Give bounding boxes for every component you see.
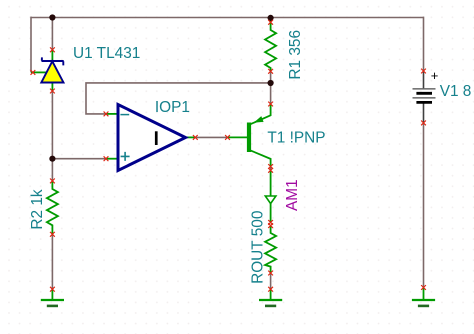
svg-text:R1 356: R1 356	[287, 30, 304, 80]
svg-text:V1 8: V1 8	[440, 83, 472, 100]
svg-text:+: +	[431, 68, 439, 83]
svg-text:T1 !PNP: T1 !PNP	[267, 129, 325, 146]
svg-text:IOP1: IOP1	[155, 99, 190, 116]
svg-text:ROUT 500: ROUT 500	[249, 211, 266, 284]
svg-text:AM1: AM1	[284, 179, 301, 211]
svg-text:U1 TL431: U1 TL431	[73, 45, 140, 62]
svg-text:R2 1k: R2 1k	[29, 189, 46, 230]
